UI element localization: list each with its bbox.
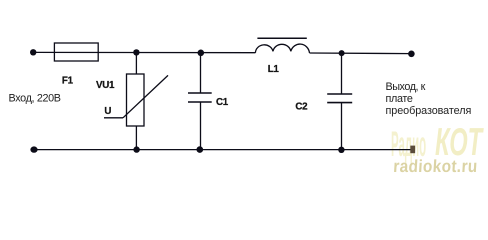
- node C2 bottom: [338, 147, 344, 153]
- svg-text:Выход, к: Выход, к: [386, 81, 426, 93]
- capacitor C2: [327, 94, 352, 103]
- svg-text:U: U: [104, 106, 111, 117]
- svg-text:плате: плате: [386, 93, 413, 105]
- wire C2 bottom: [341, 103, 343, 150]
- svg-text:Вход, 220В: Вход, 220В: [9, 93, 61, 105]
- node C1 top: [198, 50, 205, 57]
- svg-text:L1: L1: [268, 64, 280, 75]
- wire varistor bottom: [135, 126, 137, 150]
- wire C1 top: [200, 53, 202, 93]
- wire C2 top: [341, 53, 343, 94]
- terminal node input top: [30, 49, 36, 55]
- label Выход, к плате преобразователя: [386, 81, 472, 117]
- varistor VU1: [104, 74, 168, 126]
- wire top left segment: [33, 51, 255, 53]
- svg-text:C2: C2: [295, 102, 308, 113]
- terminal node output top: [408, 51, 415, 58]
- svg-text:C1: C1: [216, 97, 229, 108]
- svg-text:преобразователя: преобразователя: [386, 105, 472, 117]
- fuse F1: [54, 43, 98, 61]
- terminal node output bottom (square): [410, 146, 415, 154]
- wire varistor top: [135, 52, 137, 74]
- node varistor top: [133, 49, 139, 55]
- watermark РадиоКОТ: [391, 120, 484, 164]
- svg-text:radiokot.ru: radiokot.ru: [393, 157, 478, 176]
- node varistor bottom: [133, 146, 139, 152]
- wire bottom: [34, 149, 412, 151]
- wire C1 bottom: [200, 102, 202, 150]
- svg-text:VU1: VU1: [96, 80, 115, 91]
- node C1 bottom: [197, 146, 204, 153]
- node C2 top: [339, 50, 345, 56]
- terminal node input bottom: [30, 146, 37, 152]
- inductor L1: [255, 38, 309, 53]
- wire top right segment: [310, 52, 412, 55]
- capacitor C1: [188, 93, 212, 102]
- svg-text:F1: F1: [62, 76, 74, 87]
